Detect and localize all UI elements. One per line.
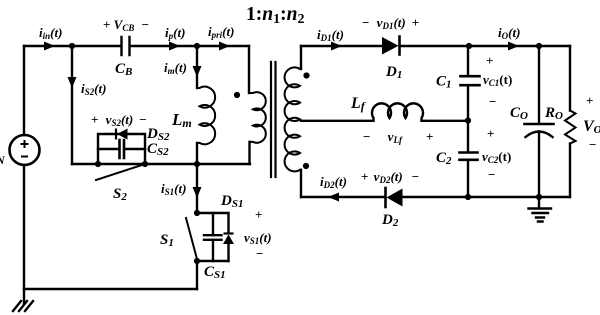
svg-text:im(t): im(t) [164,60,187,76]
svg-text:−: − [256,246,263,261]
svg-text:+: + [487,126,494,141]
svg-text:iO(t): iO(t) [498,25,520,41]
svg-text:+: + [586,93,593,108]
svg-text:−: − [488,167,495,182]
svg-text:ip(t): ip(t) [165,25,185,41]
svg-text:−: − [589,137,596,152]
svg-text:−: − [489,94,496,109]
svg-text:iin(t): iin(t) [39,25,62,41]
svg-text:+: + [486,53,493,68]
svg-text:+: + [255,207,262,222]
